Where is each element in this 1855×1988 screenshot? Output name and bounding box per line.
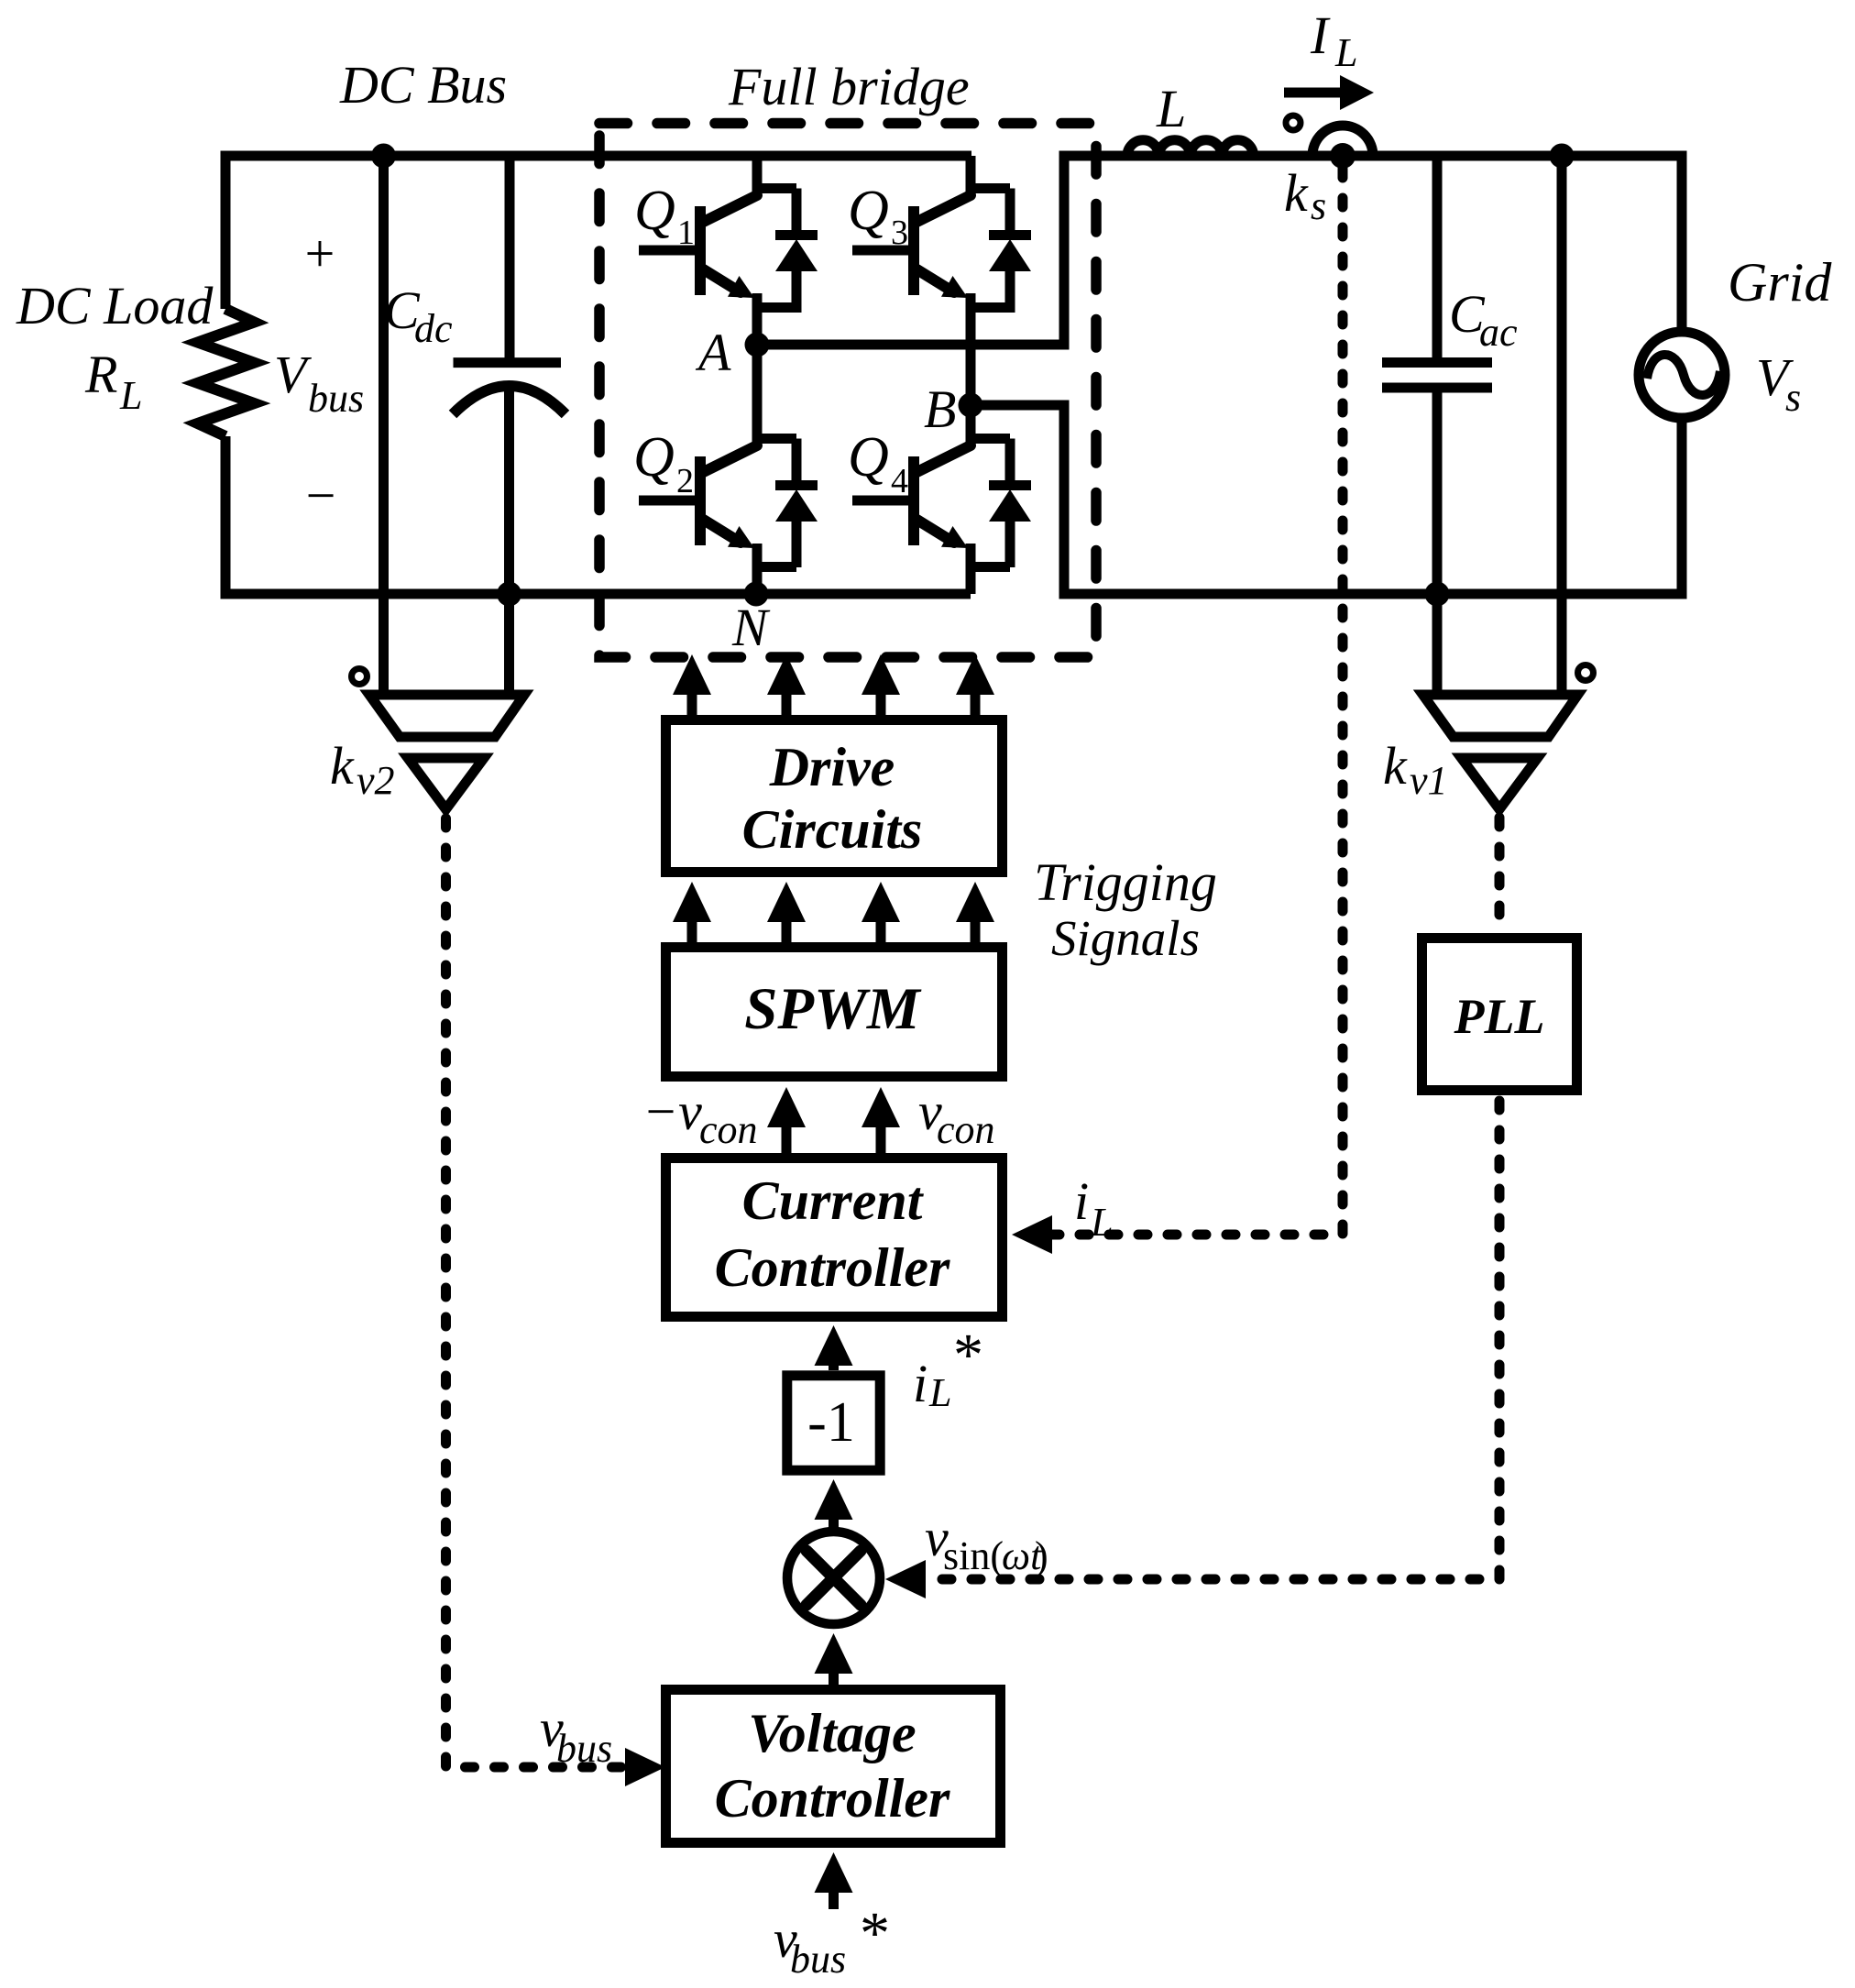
label kv1: [1383, 736, 1448, 803]
svg-text:3: 3: [891, 214, 908, 252]
svg-text:Q: Q: [634, 180, 675, 242]
svg-text:−: −: [306, 466, 336, 525]
label Full bridge: [728, 57, 970, 116]
label Signals: [1051, 910, 1200, 966]
label Circuits: [742, 799, 923, 860]
svg-text:Current: Current: [742, 1170, 925, 1231]
label + polarity: [305, 224, 335, 283]
svg-text:k: k: [330, 736, 355, 796]
multiplier circle: [787, 1532, 880, 1624]
svg-text:Controller: Controller: [715, 1768, 950, 1829]
label N: [731, 598, 771, 657]
svg-text:R: R: [84, 345, 117, 404]
svg-text:L: L: [1090, 1200, 1113, 1245]
svg-text:L: L: [119, 373, 142, 418]
label vbus star: [774, 1900, 890, 1982]
arrow multiplier to -1: [815, 1479, 853, 1527]
current sensor ks loop: [1312, 126, 1373, 156]
label SPWM: [744, 976, 922, 1042]
svg-text:SPWM: SPWM: [744, 976, 922, 1042]
svg-text:i: i: [1074, 1171, 1089, 1231]
arrow vsin into multiplier: [885, 1560, 926, 1598]
svg-text:1: 1: [677, 214, 695, 252]
transistor Q4 with diode: [852, 405, 1031, 594]
dashed vbus sense wire: [446, 818, 622, 1767]
trigger arrow 1 Drive to bridge: [673, 654, 711, 715]
resistor RL: [198, 309, 255, 436]
svg-text:Controller: Controller: [715, 1237, 950, 1298]
wire Cac upper lead: [1432, 156, 1443, 358]
label Controller CC: [715, 1237, 950, 1298]
svg-text:+: +: [305, 224, 335, 283]
svg-text:con: con: [937, 1107, 995, 1152]
svg-text:4: 4: [891, 462, 908, 500]
wire Vbus sense tap: [379, 156, 389, 695]
svg-text:bus: bus: [308, 376, 364, 421]
inductor L: [1127, 140, 1254, 156]
capacitor Cac bottom plate: [1382, 383, 1492, 393]
svg-text:L: L: [928, 1370, 951, 1415]
current sensor ks polarity circle: [1286, 115, 1301, 130]
svg-text:con: con: [699, 1107, 758, 1152]
label iL: [1074, 1171, 1113, 1245]
label vcon: [918, 1082, 995, 1152]
svg-text:*: *: [860, 1900, 890, 1967]
svg-text:dc: dc: [414, 306, 453, 351]
label Q2: [633, 426, 694, 500]
svg-text:Signals: Signals: [1051, 910, 1200, 966]
svg-text:v2: v2: [357, 758, 395, 803]
svg-text:*: *: [953, 1322, 983, 1389]
svg-text:L: L: [1156, 79, 1186, 138]
label Controller VC: [715, 1768, 950, 1829]
wire top DC bus: [225, 151, 971, 161]
svg-text:Q: Q: [633, 426, 675, 489]
label ks: [1284, 163, 1326, 228]
block Drive Circuits: [666, 720, 1003, 873]
block Current Controller: [666, 1159, 1003, 1317]
wire bottom DC bus: [225, 589, 971, 599]
block SPWM: [666, 948, 1003, 1077]
arrow 1 Current Controller to SPWM: [767, 1087, 806, 1153]
label vbus: [540, 1698, 612, 1771]
label vsin: [925, 1508, 1048, 1578]
arrow vbus into Voltage Controller: [625, 1748, 665, 1786]
wire grid branch lower: [1677, 418, 1687, 599]
label Vs: [1756, 347, 1801, 420]
label -vcon: [642, 1082, 758, 1152]
svg-text:L: L: [1334, 30, 1357, 75]
junction dot Cac bottom: [1425, 582, 1450, 607]
label Voltage: [748, 1703, 916, 1763]
label L: [1156, 79, 1186, 138]
voltage sensor kv1: [1423, 695, 1578, 809]
label DC Load: [16, 276, 214, 335]
svg-text:N: N: [731, 598, 771, 657]
label Vbus: [274, 345, 364, 421]
wire node A to AC top: [757, 156, 1682, 345]
block -1 gain: [787, 1376, 880, 1470]
svg-text:Q: Q: [848, 426, 889, 489]
svg-text:k: k: [1383, 736, 1408, 796]
label Grid: [1728, 252, 1832, 313]
arrow -1 to Current Controller: [815, 1325, 853, 1370]
label Q1: [634, 180, 695, 252]
label iL star: [913, 1322, 983, 1415]
label A: [695, 323, 731, 382]
svg-text:bus: bus: [790, 1937, 846, 1982]
node A junction: [745, 333, 770, 357]
svg-text:v1: v1: [1410, 758, 1448, 803]
trigger arrow 2 Drive to bridge: [767, 654, 806, 715]
svg-text:Full bridge: Full bridge: [728, 57, 970, 116]
arrow 1 SPWM to Drive: [673, 882, 711, 942]
wire kv1 right sense: [1557, 156, 1567, 695]
voltage sensor kv2: [369, 695, 524, 809]
label kv2: [330, 736, 395, 803]
dashed iL sense wire: [1052, 169, 1343, 1235]
svg-text:Q: Q: [848, 180, 889, 242]
arrow 4 SPWM to Drive: [956, 882, 994, 942]
wire Cdc upper lead: [505, 156, 515, 358]
wire Cac lower lead: [1432, 392, 1443, 695]
junction dot bottom bus Cdc: [497, 582, 521, 607]
arrow 2 SPWM to Drive: [767, 882, 806, 942]
wire node B to AC bottom: [971, 405, 1682, 594]
svg-text:ac: ac: [1479, 310, 1518, 355]
svg-text:Trigging: Trigging: [1034, 852, 1217, 912]
label Drive: [769, 737, 895, 797]
svg-text:A: A: [695, 323, 731, 382]
trigger arrow 3 Drive to bridge: [862, 654, 900, 715]
trigger arrow 4 Drive to bridge: [956, 654, 994, 715]
source Vs sine: [1647, 355, 1720, 395]
label IL: [1310, 5, 1357, 75]
label - polarity: [306, 466, 336, 525]
label Trigging: [1034, 852, 1217, 912]
block PLL: [1422, 939, 1577, 1091]
label Cdc: [384, 280, 453, 351]
label B: [924, 379, 956, 439]
svg-text:I: I: [1310, 5, 1331, 65]
svg-text:2: 2: [676, 462, 694, 500]
wire left branch upper: [221, 151, 231, 310]
transistor Q1 with diode: [639, 156, 818, 345]
transistor Q3 with diode: [852, 156, 1031, 405]
label -1: [807, 1391, 855, 1454]
label RL: [84, 345, 142, 418]
voltage sensor kv1 polarity circle: [1578, 665, 1594, 681]
source Vs circle: [1639, 332, 1725, 418]
wire grid branch upper: [1677, 151, 1687, 333]
svg-text:): ): [1035, 1533, 1048, 1578]
svg-text:s: s: [1311, 183, 1326, 228]
svg-text:DC Load: DC Load: [16, 276, 214, 335]
svg-text:-1: -1: [807, 1391, 855, 1454]
label DC Bus: [339, 55, 507, 115]
svg-text:s: s: [1785, 375, 1801, 420]
svg-text:i: i: [913, 1354, 927, 1413]
transistor Q2 with diode: [639, 345, 818, 594]
node B junction: [959, 393, 983, 418]
svg-text:bus: bus: [556, 1726, 612, 1771]
wire left branch lower: [221, 436, 231, 599]
arrow 2 Current Controller to SPWM: [862, 1087, 900, 1153]
current sensor ks dot: [1330, 143, 1356, 169]
dashed kv1 to PLL wire: [1495, 818, 1505, 928]
multiplier X mark: [807, 1551, 861, 1605]
arrow Voltage Controller to multiplier: [815, 1633, 853, 1685]
full bridge dashed box: [599, 124, 1096, 658]
label Q3: [848, 180, 908, 252]
capacitor Cac top plate: [1382, 357, 1492, 368]
capacitor Cdc curved plate: [453, 386, 565, 414]
node N junction: [744, 582, 769, 607]
block Voltage Controller: [666, 1690, 1001, 1843]
wire Cdc lower lead: [504, 389, 514, 695]
arrow IL direction: [1284, 75, 1374, 110]
voltage sensor kv2 polarity circle: [352, 669, 368, 685]
arrow iL into Current Controller: [1012, 1215, 1052, 1254]
svg-text:Grid: Grid: [1728, 252, 1832, 313]
capacitor Cdc top plate: [454, 357, 562, 368]
svg-text:B: B: [924, 379, 956, 439]
label Cac: [1449, 284, 1518, 355]
svg-text:Voltage: Voltage: [748, 1703, 916, 1763]
svg-text:DC Bus: DC Bus: [339, 55, 507, 115]
svg-text:Drive: Drive: [769, 737, 895, 797]
junction dot grid mid top: [1550, 144, 1575, 169]
label Current: [742, 1170, 925, 1231]
svg-text:Circuits: Circuits: [742, 799, 923, 860]
junction dot top bus sense: [371, 144, 396, 169]
svg-text:−v: −v: [642, 1082, 702, 1141]
arrow vbus-ref into Voltage Controller: [815, 1852, 853, 1909]
svg-text:sin(: sin(: [943, 1533, 1004, 1578]
svg-text:k: k: [1284, 163, 1309, 223]
label PLL: [1454, 989, 1545, 1044]
dashed PLL to multiplier wire: [924, 1101, 1499, 1579]
svg-text:PLL: PLL: [1454, 989, 1545, 1044]
label Q4: [848, 426, 908, 500]
arrow 3 SPWM to Drive: [862, 882, 900, 942]
